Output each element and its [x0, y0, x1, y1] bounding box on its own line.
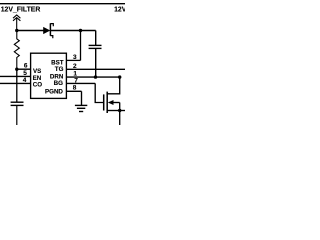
wire resistor to cap C2: [16, 69, 18, 102]
power arrow 12V_FILTER: [13, 15, 20, 31]
resistor R1: [14, 31, 19, 70]
wire cap C2 bottom lead: [16, 105, 18, 125]
pin 7 wire BG stub: [66, 82, 95, 84]
node E junction dot source: [118, 109, 121, 112]
svg-text:PGND: PGND: [45, 88, 63, 95]
wire main horizontal to diode: [17, 30, 44, 32]
wire diode cathode to corner: [50, 30, 95, 32]
wire 12V top rail: [0, 3, 125, 5]
pin 2 wire TG line to right edge: [66, 68, 125, 70]
transistor Q1 body arrow: [108, 100, 114, 105]
capacitor C2: [11, 102, 24, 105]
svg-text:5: 5: [23, 70, 27, 77]
svg-text:12V: 12V: [114, 6, 125, 13]
wire BG to gate: down and right: [95, 83, 104, 102]
svg-text:TG: TG: [55, 66, 64, 73]
svg-text:4: 4: [23, 77, 27, 84]
svg-text:8: 8: [73, 85, 77, 92]
pin 8 wire PGND stub: [66, 90, 81, 92]
wire source down: [119, 111, 121, 126]
pin 1 wire DRN line: [66, 76, 119, 78]
transistor Q1 gate bar: [103, 94, 105, 110]
svg-text:CO: CO: [33, 82, 42, 89]
wire BST riser vertical: [80, 31, 82, 61]
pin 6 wire VS: [17, 68, 31, 70]
wire PGND to ground: [81, 91, 83, 105]
svg-text:7: 7: [74, 77, 78, 84]
node A junction dot 12V_FILTER: [15, 29, 18, 32]
node B junction dot BST riser: [79, 29, 82, 32]
wire corner down to bootstrap cap: [95, 31, 97, 46]
node D junction dot pin6: [15, 68, 18, 71]
svg-text:2: 2: [73, 63, 77, 70]
node C junction dot cap to DRN line: [94, 75, 97, 78]
svg-text:6: 6: [24, 63, 28, 70]
ground PGND: [75, 105, 87, 111]
node F junction dot DRN to drain: [118, 75, 121, 78]
capacitor C1 bootstrap: [89, 45, 102, 48]
transistor Q1 drain stub: [107, 77, 120, 94]
IC U1 body: [31, 53, 67, 98]
svg-text:12V_FILTER: 12V_FILTER: [1, 6, 41, 13]
pin 5 wire EN: [0, 75, 31, 77]
diode D1 schottky: [43, 23, 53, 38]
pin 4 wire CO: [0, 82, 31, 84]
wire cap C1 bottom lead to DRN: [95, 48, 97, 77]
transistor Q1 source stub: [107, 110, 120, 112]
svg-text:3: 3: [73, 54, 77, 61]
pin 3 wire BST stub: [66, 59, 80, 61]
svg-text:BG: BG: [54, 80, 63, 87]
wire source right: [120, 110, 125, 112]
wire body to source: [119, 103, 121, 111]
transistor Q1 channel bar: [106, 92, 108, 113]
